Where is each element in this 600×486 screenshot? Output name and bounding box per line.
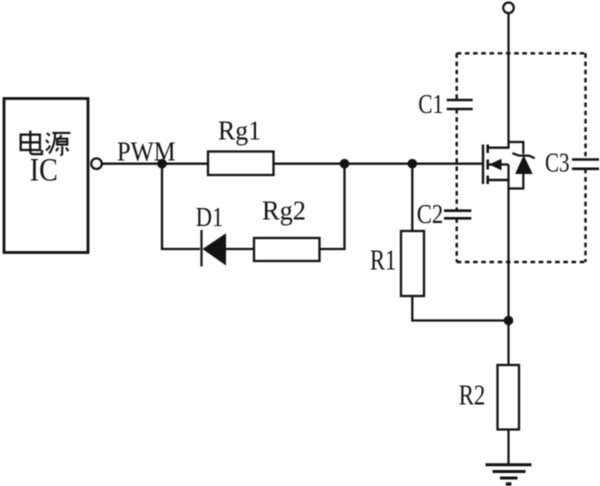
capacitor C2 (gate-source)	[417, 199, 472, 229]
svg-text:Rg1: Rg1	[218, 115, 261, 145]
label 电 (dian)	[21, 131, 42, 155]
diode D1	[196, 202, 226, 267]
svg-text:D1: D1	[196, 202, 224, 232]
junction after Rg1	[340, 159, 350, 169]
wire body to source	[507, 165, 509, 181]
resistor Rg1	[208, 115, 274, 175]
ground	[486, 465, 532, 484]
svg-text:R2: R2	[459, 380, 486, 412]
resistor R1	[370, 231, 424, 296]
resistor R2	[459, 365, 519, 430]
wire R2 to ground	[507, 430, 509, 465]
junction at R1 tap	[408, 159, 418, 169]
wire D1 to Rg2	[226, 248, 254, 250]
junction at source node	[504, 316, 514, 326]
transistor Q1 drain link	[488, 146, 510, 148]
wire gate node down to R1	[411, 164, 413, 231]
transistor Q1 N-MOSFET gate bar	[482, 145, 484, 185]
svg-text:R1: R1	[370, 244, 396, 276]
wire Rg2 back up to gate line	[320, 164, 345, 249]
MOSFET package outline (dashed)	[457, 53, 586, 262]
svg-text:C2: C2	[417, 199, 444, 229]
PWM output terminal	[91, 158, 102, 169]
svg-text:C3: C3	[545, 147, 570, 177]
transistor Q1 source link	[488, 179, 510, 181]
svg-text:C1: C1	[418, 89, 443, 119]
transistor Q1 channel segments	[486, 145, 489, 185]
junction at PWM node	[157, 159, 167, 169]
capacitor C1 (gate-drain)	[418, 89, 472, 119]
wire R1 bottom to source node	[412, 296, 508, 321]
svg-text:IC: IC	[30, 153, 58, 189]
body diode of Q1	[512, 153, 534, 174]
capacitor C3 (drain-source)	[545, 147, 599, 177]
svg-text:PWM: PWM	[117, 137, 176, 167]
wire PWM to gate (main horizontal)	[102, 163, 482, 165]
power IC box U1	[4, 99, 88, 253]
label 源 (yuan)	[46, 133, 71, 155]
resistor Rg2	[254, 195, 320, 261]
wire source vertical down to R2	[507, 179, 509, 365]
wire drain to body diode	[509, 142, 524, 154]
wire down from PWM node to discharge branch	[162, 164, 200, 249]
transistor Q1 body arrow	[489, 159, 509, 170]
drain terminal	[503, 3, 514, 14]
wire drain vertical	[507, 13, 509, 149]
svg-text:Rg2: Rg2	[262, 195, 306, 225]
wire body diode to source	[509, 174, 524, 189]
